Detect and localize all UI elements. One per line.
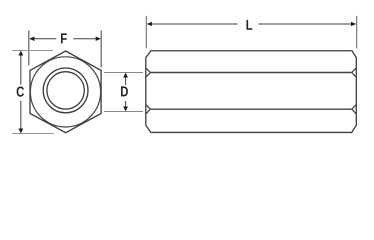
L dimension line	[151, 23, 237, 25]
upper facet chamfer V right	[352, 68, 356, 77]
C label	[17, 86, 24, 96]
C arrow down	[18, 129, 23, 134]
C extension line bottom	[12, 133, 54, 135]
C arrow up	[18, 51, 23, 56]
L arrow left	[147, 22, 152, 26]
L arrow right	[351, 22, 356, 26]
D extension line bottom	[104, 111, 143, 113]
L extension line left	[145, 16, 147, 49]
D dimension line	[125, 77, 127, 85]
thread major circle	[43, 68, 88, 113]
lower facet line	[150, 108, 351, 110]
D arrow down	[123, 107, 128, 112]
lower facet chamfer V left	[146, 105, 150, 114]
upper facet chamfer V left	[146, 68, 150, 77]
F arrow left	[29, 37, 34, 41]
hexagon end view outline	[30, 51, 101, 133]
side view body outline	[146, 51, 356, 133]
D label	[121, 86, 128, 96]
F extension line right	[100, 31, 102, 68]
F extension line left	[28, 31, 30, 66]
F arrow right	[96, 37, 101, 41]
hole circle	[47, 72, 84, 109]
lower facet chamfer V right	[352, 105, 356, 114]
L extension line right	[356, 16, 358, 49]
D extension line top	[104, 72, 143, 74]
L label	[247, 20, 253, 30]
F dimension line	[34, 38, 56, 40]
F label	[61, 33, 67, 43]
D arrow up	[123, 73, 128, 78]
C extension line top	[12, 50, 53, 52]
C dimension line	[20, 55, 22, 85]
upper facet line	[150, 72, 351, 74]
chamfer circle	[30, 57, 100, 127]
